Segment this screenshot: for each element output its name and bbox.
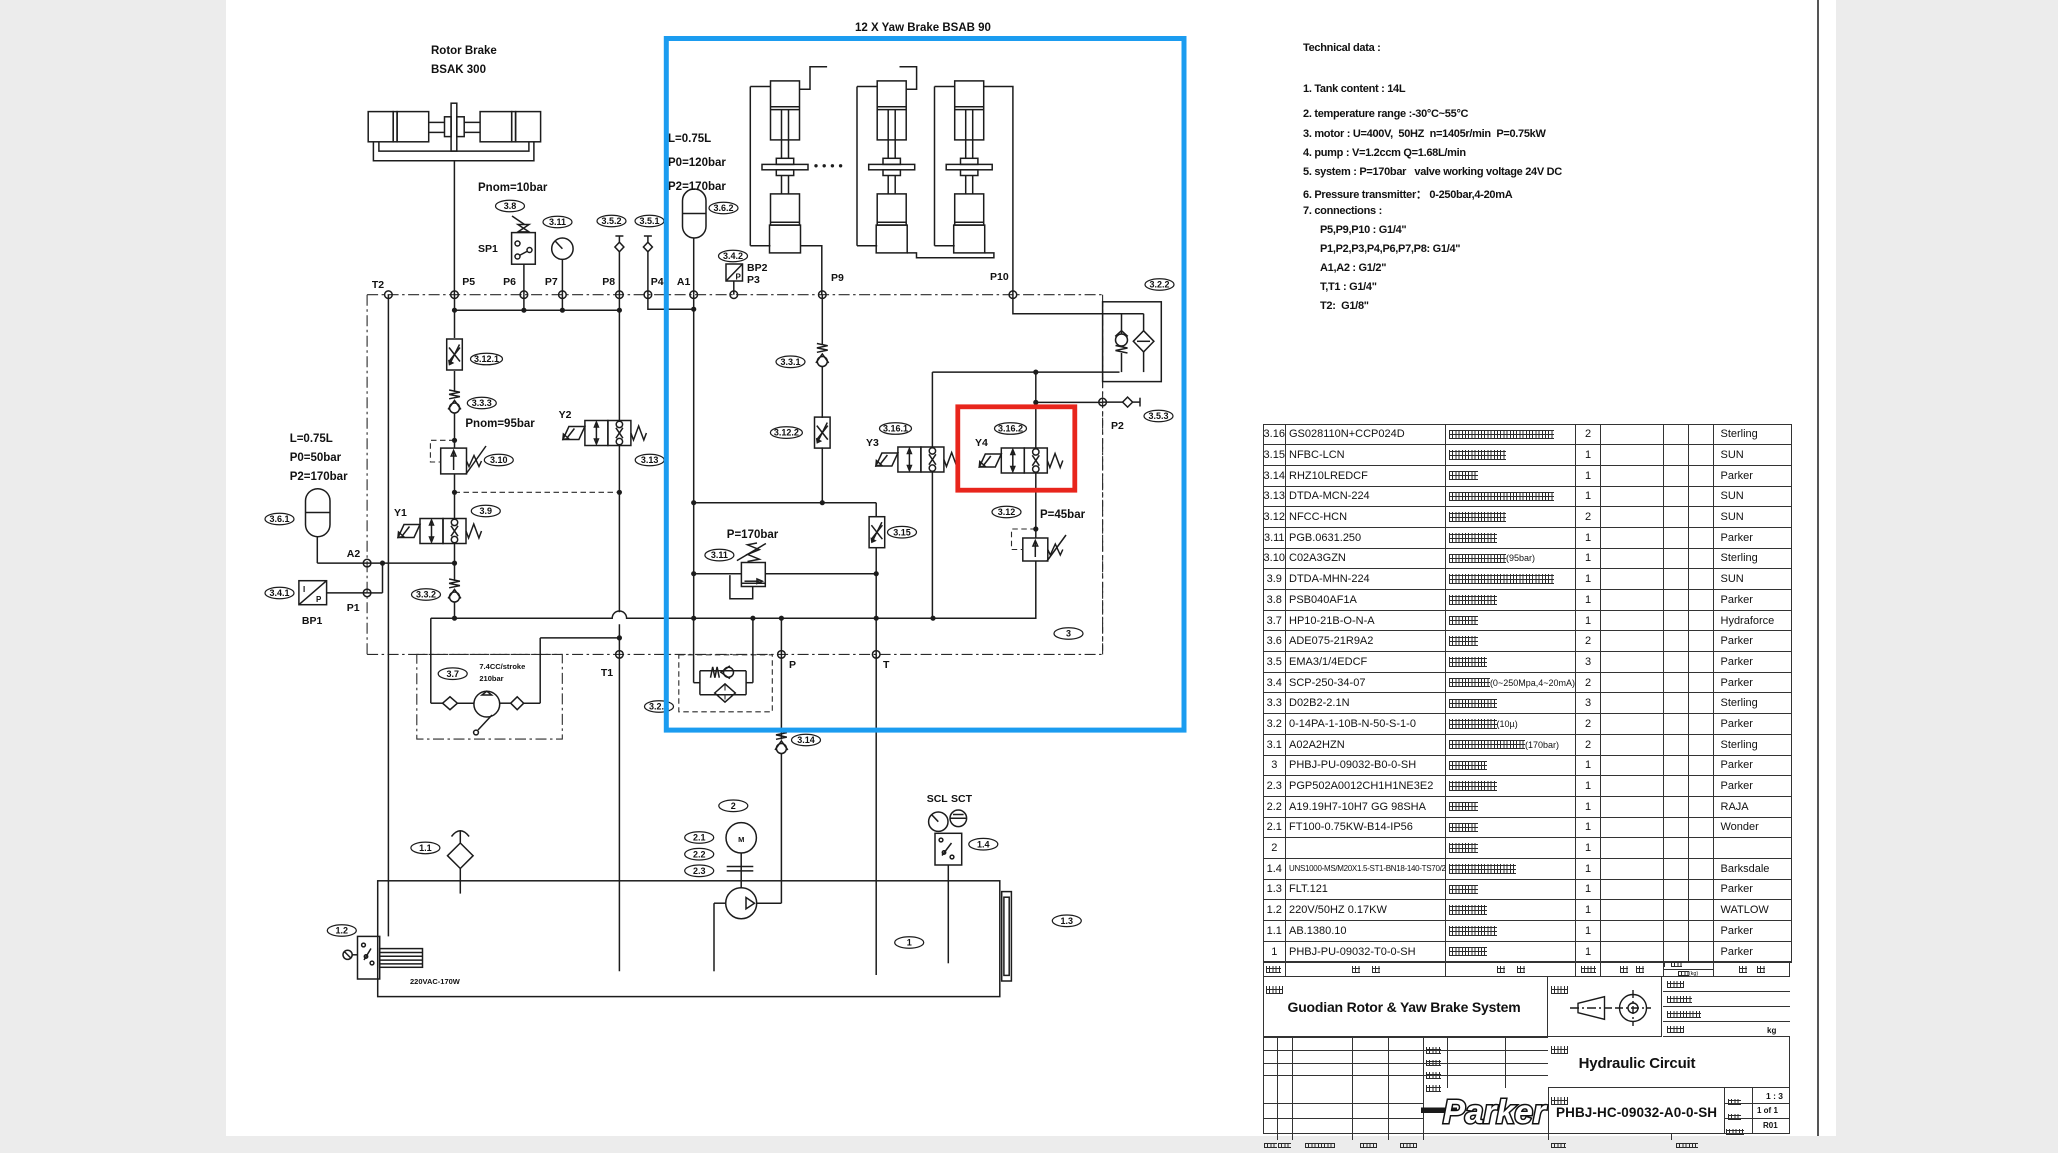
svg-text:P: P bbox=[789, 659, 796, 671]
wire Y2 down bbox=[618, 446, 620, 613]
svg-text:3.3.1: 3.3.1 bbox=[780, 357, 800, 367]
svg-text:Y1: Y1 bbox=[394, 507, 407, 519]
svg-text:1.4: 1.4 bbox=[977, 839, 990, 849]
wire manual pump outlet bbox=[540, 637, 619, 639]
relief valve 3.11 (P=170bar) bbox=[741, 563, 765, 587]
svg-text:3.16.2: 3.16.2 bbox=[998, 424, 1023, 434]
svg-text:L=0.75L: L=0.75L bbox=[290, 433, 333, 445]
svg-text:Rotor Brake: Rotor Brake bbox=[431, 45, 497, 57]
svg-text:1.1: 1.1 bbox=[419, 843, 432, 853]
wire gauge to P7 bbox=[561, 259, 563, 294]
svg-text:12 X Yaw Brake BSAB 90: 12 X Yaw Brake BSAB 90 bbox=[855, 22, 991, 34]
svg-text:3.3.2: 3.3.2 bbox=[416, 590, 436, 600]
svg-text:3.9: 3.9 bbox=[480, 506, 493, 516]
motor pump group 2 bbox=[719, 800, 748, 812]
svg-text:T1: T1 bbox=[601, 667, 613, 679]
svg-text:3.3.3: 3.3.3 bbox=[472, 398, 492, 408]
wire P9 down bbox=[821, 295, 823, 345]
svg-text:3.12.1: 3.12.1 bbox=[474, 354, 499, 364]
wire 3.12.1 to 3.3.3 bbox=[454, 371, 456, 392]
pressure reducing valve 3.10 (95bar) bbox=[441, 448, 467, 474]
level gauge 1.3 bbox=[1002, 892, 1012, 981]
wire manual pump loop risers bbox=[430, 618, 432, 703]
junction at 693.7,502.7 bbox=[691, 500, 696, 505]
junction at 781.4,618.2 bbox=[779, 616, 784, 621]
test point 3.5.1 bbox=[635, 215, 664, 227]
junction at 619.4,492.3 bbox=[617, 490, 622, 495]
svg-text:P2=170bar: P2=170bar bbox=[290, 471, 348, 483]
node A1 bbox=[690, 291, 698, 299]
wire 3.3.2 to collector bbox=[454, 602, 456, 618]
wire BP1 to P1 line bbox=[327, 592, 368, 594]
svg-text:1: 1 bbox=[907, 938, 912, 948]
wire P riser upper bbox=[780, 618, 782, 739]
wire pump suction bbox=[714, 902, 726, 904]
svg-text:P4: P4 bbox=[651, 276, 664, 288]
svg-text:Y3: Y3 bbox=[866, 437, 879, 449]
svg-text:SCT: SCT bbox=[951, 793, 973, 805]
svg-text:3.12.2: 3.12.2 bbox=[774, 428, 799, 438]
check valve 3.14 bbox=[775, 731, 788, 754]
svg-text:3.8: 3.8 bbox=[504, 201, 517, 211]
junction at 523.9,310.2 bbox=[521, 308, 526, 313]
junction at 933,618.2 bbox=[930, 616, 935, 621]
solenoid valve Y3 (3.16.1) bbox=[921, 447, 944, 472]
svg-text:P0=120bar: P0=120bar bbox=[668, 157, 726, 169]
svg-text:3.4.2: 3.4.2 bbox=[723, 251, 743, 261]
wire test point 3.5.1 to P4 bbox=[647, 252, 649, 295]
svg-text:3.4.1: 3.4.1 bbox=[269, 588, 289, 598]
svg-text:P7: P7 bbox=[545, 276, 558, 288]
svg-text:220VAC-170W: 220VAC-170W bbox=[410, 977, 461, 986]
svg-text:L=0.75L: L=0.75L bbox=[668, 133, 711, 145]
svg-text:P=45bar: P=45bar bbox=[1040, 509, 1086, 521]
junction at 1035.8,372.1 bbox=[1033, 370, 1038, 375]
check valve 3.3.3 bbox=[448, 390, 461, 413]
wire 3.15 to T node bbox=[875, 548, 877, 655]
wire assembly2 pigtail bbox=[900, 67, 917, 89]
svg-text:BP2: BP2 bbox=[747, 262, 768, 274]
high pressure filter block 3.2.2 bbox=[1103, 302, 1162, 382]
svg-text:P=170bar: P=170bar bbox=[727, 529, 779, 541]
wire T into tank bbox=[875, 654, 877, 975]
wire Y4 branch to P2 bbox=[1036, 401, 1103, 403]
svg-text:7.4CC/stroke: 7.4CC/stroke bbox=[479, 662, 525, 671]
junction at 382.5,563.1 bbox=[380, 561, 385, 566]
wire assembly3 to P10 bbox=[984, 87, 1013, 295]
wire assembly1 to P9 bbox=[800, 246, 822, 295]
junction at 693.7,618.2 bbox=[691, 616, 696, 621]
svg-text:A1: A1 bbox=[677, 276, 691, 288]
heater 1.2 (220VAC-170W) bbox=[327, 925, 356, 937]
wire BP2 to P3 bbox=[733, 281, 735, 295]
suction filter 3.2.1 enclosure box bbox=[679, 655, 773, 712]
svg-text:P: P bbox=[316, 595, 322, 604]
wire T2 return into tank bbox=[387, 295, 389, 937]
svg-text:I: I bbox=[303, 585, 305, 594]
junction at 822.3,502.7 bbox=[820, 500, 825, 505]
pressure transmitter BP1 (3.4.1) bbox=[299, 581, 327, 605]
node T bbox=[872, 651, 880, 659]
wire level switch into tank bbox=[947, 865, 949, 963]
wire pump discharge bbox=[757, 902, 782, 904]
svg-text:3.6.1: 3.6.1 bbox=[269, 514, 289, 524]
svg-text:2: 2 bbox=[731, 801, 736, 811]
wire P4 to A1 line bbox=[648, 295, 694, 310]
svg-text:2.2: 2.2 bbox=[693, 849, 706, 859]
svg-text:T2: T2 bbox=[372, 279, 384, 291]
wire P7 stub bbox=[561, 295, 563, 311]
svg-text:3.5.3: 3.5.3 bbox=[1148, 411, 1168, 421]
wire test point 3.5.2 to P8 bbox=[618, 252, 620, 295]
wire to 3.15 bbox=[875, 503, 877, 517]
svg-text:P8: P8 bbox=[602, 276, 615, 288]
svg-text:SP1: SP1 bbox=[478, 243, 498, 255]
svg-text:SCL: SCL bbox=[927, 793, 949, 805]
svg-text:A2: A2 bbox=[347, 548, 361, 560]
yaw brake cylinder assemblies x3 bbox=[749, 87, 751, 246]
solenoid valve Y2 (3.13) bbox=[608, 421, 631, 446]
svg-text:3.16.1: 3.16.1 bbox=[883, 424, 908, 434]
wire P8 down to Y2 bbox=[618, 295, 620, 421]
node A2 bbox=[363, 559, 371, 567]
node T2 bbox=[385, 291, 393, 299]
solenoid valve Y1 (3.9) bbox=[443, 519, 466, 544]
accumulator 3.6.1 bbox=[306, 489, 331, 537]
node P5 bbox=[451, 291, 459, 299]
wire A1 to 3.15 header bbox=[694, 502, 877, 504]
wire P5-P8 header bbox=[455, 309, 620, 311]
svg-text:3.11: 3.11 bbox=[711, 550, 728, 560]
wire 3.10 to Y1 bbox=[454, 474, 456, 519]
wire to Y4 bbox=[1035, 372, 1037, 448]
svg-text:3.5.1: 3.5.1 bbox=[639, 216, 659, 226]
svg-text:P2: P2 bbox=[1111, 420, 1124, 432]
junction at 693.7,573.7 bbox=[691, 571, 696, 576]
highlight box Y4 valve (red) bbox=[958, 407, 1075, 490]
node P4 bbox=[644, 291, 652, 299]
wire 3.3.3 to 3.10 bbox=[454, 413, 456, 448]
junction at 454.5,310.2 bbox=[452, 308, 457, 313]
continuation dots bbox=[814, 164, 817, 167]
suction filter 3.2.1 check and element bbox=[711, 666, 734, 679]
oil tank 1 bbox=[378, 881, 1000, 997]
svg-text:P9: P9 bbox=[831, 272, 844, 284]
wire to Y3 bbox=[931, 372, 933, 447]
wire 3.3.1 to 3.12.2 bbox=[821, 367, 823, 418]
flow control valve 3.12.1 bbox=[447, 339, 463, 370]
wire accumulator 3.6.2 to A1 bbox=[693, 238, 695, 295]
pressure switch SP1 (3.8) bbox=[496, 200, 525, 212]
wire 3.12.2 down bbox=[821, 447, 823, 502]
wire accumulator 3.6.1 to A2 line bbox=[317, 562, 367, 564]
svg-text:T: T bbox=[883, 659, 890, 671]
wire 45bar valve to collector bbox=[933, 561, 1036, 618]
wire P10 to filter 3.2.2 bbox=[1013, 295, 1144, 314]
svg-text:Pnom=95bar: Pnom=95bar bbox=[465, 418, 535, 430]
junction at 454.5,563.1 bbox=[452, 561, 457, 566]
svg-text:P10: P10 bbox=[990, 271, 1009, 283]
svg-text:P3: P3 bbox=[747, 274, 760, 286]
wire relief 3.11 line bbox=[694, 573, 742, 575]
junction at 876.2,618.2 bbox=[874, 616, 879, 621]
svg-text:3.10: 3.10 bbox=[490, 455, 508, 465]
svg-text:1.2: 1.2 bbox=[336, 926, 349, 936]
svg-text:3.2.2: 3.2.2 bbox=[1149, 280, 1169, 290]
manual pump 3.7 bbox=[474, 691, 500, 717]
svg-text:P6: P6 bbox=[503, 276, 516, 288]
svg-text:1.3: 1.3 bbox=[1061, 916, 1074, 926]
node P2 bbox=[1099, 398, 1107, 406]
svg-text:BP1: BP1 bbox=[302, 615, 323, 627]
air filter 1.1 bbox=[448, 843, 474, 869]
wire A1 riser bbox=[693, 295, 695, 619]
svg-text:P2=170bar: P2=170bar bbox=[668, 181, 726, 193]
junction at 562.4,310.2 bbox=[560, 308, 565, 313]
svg-text:3.15: 3.15 bbox=[893, 527, 911, 537]
svg-text:P: P bbox=[736, 273, 742, 282]
wire Y4 to 45bar valve bbox=[1035, 473, 1037, 538]
wire T1 line into tank bbox=[618, 624, 620, 971]
svg-text:2.1: 2.1 bbox=[693, 833, 706, 843]
test point 3.5.3 and P2 stub bbox=[1103, 401, 1123, 403]
node P10 bbox=[1009, 291, 1017, 299]
wire suction filter 3.2.1 branches bbox=[693, 618, 695, 683]
svg-text:P5: P5 bbox=[462, 276, 475, 288]
node P1 bbox=[363, 589, 371, 597]
svg-text:3.7: 3.7 bbox=[446, 669, 459, 679]
accumulator 3.6.2 bbox=[683, 189, 707, 238]
junction at 454.5,618.2 bbox=[452, 616, 457, 621]
svg-text:3.14: 3.14 bbox=[797, 735, 815, 745]
node P7 bbox=[559, 291, 567, 299]
manifold block 3 boundary (dash-dot) bbox=[367, 295, 1103, 655]
wire main collector line with crossover hump bbox=[431, 611, 1036, 618]
wire rotor brake to P5 bbox=[453, 161, 455, 295]
svg-text:3.13: 3.13 bbox=[641, 455, 659, 465]
svg-text:M: M bbox=[738, 835, 744, 844]
manual pump 3.7 enclosure box bbox=[417, 654, 563, 739]
svg-text:3: 3 bbox=[1066, 629, 1071, 639]
node P8 bbox=[616, 291, 624, 299]
node P3 bbox=[730, 291, 738, 299]
junction at 693.7,309.2 bbox=[691, 307, 696, 312]
pilot line 3.10 to P8 line (dashed) bbox=[455, 302, 1103, 655]
wire assembly2-3 bottom link bbox=[907, 253, 994, 258]
check valve 3.3.1 bbox=[816, 344, 829, 367]
junction at 876.2,573.7 bbox=[874, 571, 879, 576]
node P6 bbox=[520, 291, 528, 299]
wire SP1 to P6 bbox=[523, 264, 525, 295]
node P9 bbox=[819, 291, 827, 299]
wire Y1 to 3.3.2 bbox=[454, 544, 456, 582]
svg-text:210bar: 210bar bbox=[479, 674, 503, 683]
node T1 bbox=[616, 651, 624, 659]
solenoid valve Y4 (3.16.2) bbox=[1024, 448, 1047, 473]
flow control valve 3.15 bbox=[869, 517, 885, 548]
junction at 454.5,492.3 bbox=[452, 490, 457, 495]
svg-text:3.6.2: 3.6.2 bbox=[713, 203, 733, 213]
highlight box 12 X Yaw Brake BSAB 90 (blue) bbox=[666, 39, 1184, 731]
junction at 752.9,618.2 bbox=[750, 616, 755, 621]
svg-text:2.3: 2.3 bbox=[693, 866, 706, 876]
wire Y3 down bbox=[931, 472, 933, 618]
svg-text:3.11: 3.11 bbox=[549, 217, 566, 227]
svg-text:Y2: Y2 bbox=[559, 409, 572, 421]
svg-text:3.5.2: 3.5.2 bbox=[601, 216, 621, 226]
wire 3.14 to pump bbox=[780, 754, 782, 904]
svg-text:P1: P1 bbox=[347, 602, 360, 614]
wire P6 stub bbox=[523, 295, 525, 311]
junction at 619.4,310.2 bbox=[617, 308, 622, 313]
wire Y3/Y4 header to filter 3.2.2 bbox=[932, 371, 1119, 373]
svg-text:3.12: 3.12 bbox=[998, 507, 1016, 517]
svg-text:P0=50bar: P0=50bar bbox=[290, 452, 342, 464]
callout 3 block label bbox=[1054, 628, 1083, 640]
svg-text:Y4: Y4 bbox=[975, 437, 988, 449]
check valve 3.3.2 bbox=[448, 579, 461, 602]
flow control valve 3.12.2 bbox=[815, 417, 831, 448]
wire assembly1 pigtail bbox=[800, 67, 828, 89]
test point 3.5.2 bbox=[597, 215, 626, 227]
node P bbox=[778, 651, 786, 659]
wire air filter into tank bbox=[459, 869, 461, 894]
junction at 1035.8,402.4 bbox=[1033, 400, 1038, 405]
junction at 619.4,637.9 bbox=[617, 635, 622, 640]
wire manual pump loop bbox=[431, 702, 443, 704]
svg-text:Pnom=10bar: Pnom=10bar bbox=[478, 182, 548, 194]
pressure valve 3.12 (P=45bar) bbox=[1023, 538, 1048, 561]
svg-text:BSAK 300: BSAK 300 bbox=[431, 64, 486, 76]
pressure transmitter BP2 (3.4.2) bbox=[719, 250, 748, 262]
wire P5 riser upper bbox=[454, 295, 456, 338]
pressure gauge 3.11 bbox=[543, 216, 572, 228]
